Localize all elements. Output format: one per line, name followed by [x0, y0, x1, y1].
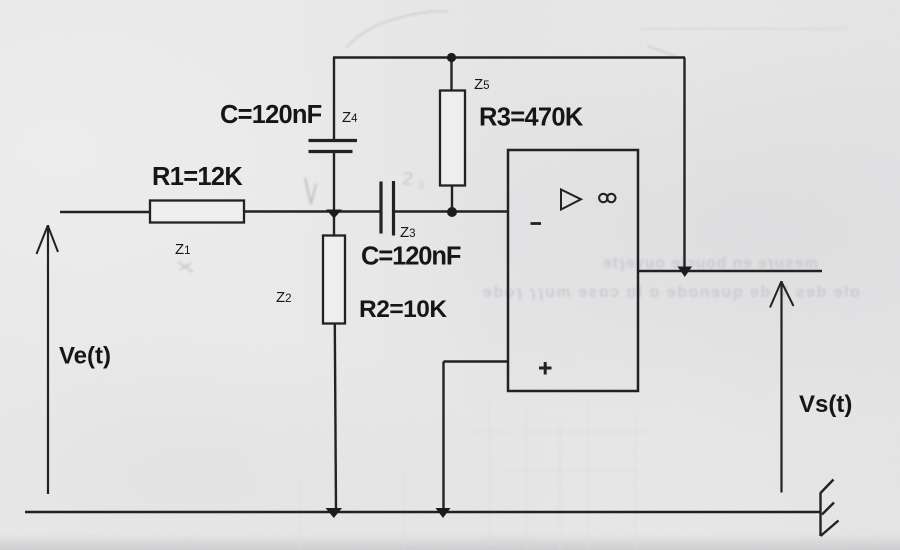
wire: C4 bottom stub to node A	[333, 152, 335, 214]
svg-text:ɘtɿɘvuo ɘlɔuod nɘ ɘɿuƨɘm: ɘtɿɘvuo ɘlɔuod nɘ ɘɿuƨɘm	[603, 255, 819, 272]
wire: R1 to C3	[243, 210, 381, 212]
wire: C4 top stub	[333, 58, 335, 141]
svg-text:C=120nF: C=120nF	[361, 243, 461, 271]
node: top wire / R3 junction	[447, 53, 456, 62]
op-amp gain triangle	[561, 190, 581, 210]
op-amp infinity gain symbol	[599, 194, 607, 202]
source arrow Vs(t)	[780, 281, 782, 493]
wire: R3 bottom stub	[451, 186, 453, 212]
wire: op-amp output to Vs	[638, 270, 823, 273]
capacitor C3 plates	[379, 182, 382, 234]
svg-text:ɘboɿ ɿɿum ɘƨɒɔ ɒl ɒ ɘbonɘup ɘb: ɘboɿ ɿɿum ɘƨɒɔ ɒl ɒ ɘbonɘup ɘb V ƨɘb ɘlɒ	[483, 284, 861, 301]
wire: R3 top stub	[450, 58, 452, 92]
wire: input left segment	[60, 211, 151, 213]
node: ground rail / plus-input junction	[436, 508, 451, 518]
node A: main wire / C4 / R2 junction	[326, 210, 342, 219]
wire: plus input drop to ground rail	[442, 362, 444, 512]
resistor R2 (Z2) body	[323, 236, 345, 324]
ground symbol	[819, 493, 821, 537]
capacitor C4 plates	[309, 139, 358, 142]
op-amp plus input sign	[539, 362, 552, 375]
wire: R2 bottom to ground rail	[335, 324, 336, 512]
wire: C3 to op-amp minus input	[394, 210, 509, 212]
svg-text:R1=12K: R1=12K	[152, 163, 243, 191]
node B: main wire / R3 junction	[447, 207, 457, 217]
wire: bottom ground rail	[25, 511, 820, 514]
resistor R3 (Z5) body	[440, 91, 465, 186]
node: output / feedback junction	[678, 267, 693, 278]
node: ground rail / R2 junction	[326, 508, 343, 518]
source arrow Ve(t)	[47, 225, 49, 494]
resistor R1 (Z1) body	[150, 201, 244, 223]
svg-text:C=120nF: C=120nF	[220, 101, 322, 129]
wire: node A to R2 top	[333, 214, 335, 236]
wire: top feedback horizontal	[333, 56, 685, 58]
svg-text:Ve(t): Ve(t)	[59, 343, 111, 370]
svg-text:R2=10K: R2=10K	[359, 296, 447, 323]
op-amp minus input sign	[531, 222, 542, 225]
svg-text:R3=470K: R3=470K	[479, 104, 584, 132]
op-amp U1 body	[508, 150, 638, 391]
ink group	[25, 58, 839, 537]
wire: op-amp plus input horizontal	[444, 360, 509, 362]
wire: feedback vertical drop	[683, 58, 685, 272]
svg-text:2 ₃: 2 ₃	[401, 168, 426, 191]
svg-text:Vs(t): Vs(t)	[799, 391, 852, 418]
